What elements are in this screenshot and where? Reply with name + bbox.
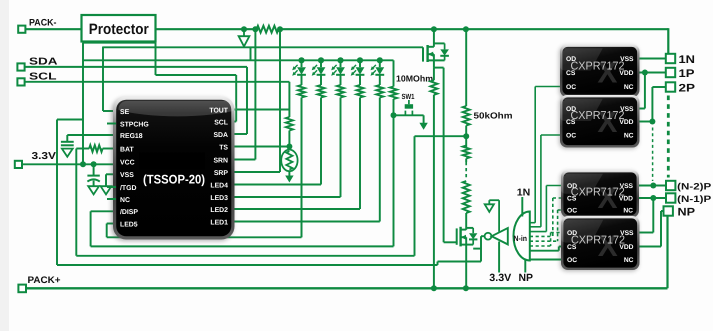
wire VSS2 riser (644, 73, 646, 109)
svg-text:3.3V: 3.3V (489, 272, 511, 284)
ground arrow C-REG18 (62, 149, 73, 157)
svg-text:TS: TS (219, 144, 228, 151)
wire left column x=83 (82, 43, 84, 165)
wire inverter output leg (481, 235, 485, 237)
svg-text:1P: 1P (679, 68, 695, 80)
wire gate input OC2 (530, 226, 541, 228)
wire BAT + resistor R-BAT (103, 148, 115, 150)
wire VSS (106, 173, 115, 175)
terminal PACK- (18, 26, 25, 33)
wire gate input CS4 (530, 250, 559, 252)
svg-text:CXPR7172: CXPR7172 (571, 187, 625, 199)
LED D1 (298, 57, 304, 63)
svg-text:NC: NC (624, 257, 634, 264)
wire SCL-pin link (y=75) (155, 43, 157, 75)
wire chain continuation (thin dashed) (652, 128, 654, 182)
wire VDD2 to 2P (638, 121, 652, 123)
terminal PACK+ (18, 285, 26, 293)
U1 redaction block (139, 153, 205, 170)
wire LED4 pin (320, 98, 322, 185)
wire REG18 (67, 134, 115, 136)
arrow SW to PACK+ (423, 115, 425, 123)
resistor R-TS (286, 117, 293, 131)
LED D5 (377, 57, 383, 63)
svg-text:(N-1)P: (N-1)P (677, 194, 711, 204)
svg-text:CXPR7172: CXPR7172 (571, 234, 625, 246)
resistor R-LED2 (320, 75, 322, 85)
wire rail 3.3V (y=262.5) (57, 264, 438, 266)
wire TOUT (233, 109, 290, 111)
svg-text:REG18: REG18 (120, 133, 143, 140)
svg-text:TOUT: TOUT (209, 107, 228, 114)
wire /DISP (91, 210, 115, 212)
wire SRN riser (254, 29, 256, 159)
LED D4 (357, 57, 363, 63)
svg-text:NP: NP (519, 272, 534, 284)
wire NP to PACK+ (666, 216, 668, 289)
wire SE pin riser (102, 47, 104, 112)
wire rail B gate line (y=47.3) (103, 46, 423, 48)
LED D3 (337, 57, 343, 63)
wire railB to LED rail connector (250, 47, 252, 60)
Protector box (82, 15, 156, 42)
resistor R-LED5 (379, 75, 381, 85)
terminal SDA (17, 63, 24, 70)
resistor R-LED4 (359, 75, 361, 85)
svg-text:CXPR7172: CXPR7172 (571, 110, 625, 122)
power arrow above inverter (485, 204, 494, 212)
svg-text:OC: OC (567, 208, 577, 215)
wire Q1-source to Q2-gate (443, 68, 445, 243)
U1 unconnected pin stubs (107, 123, 116, 125)
ground arrow VSS (101, 186, 112, 194)
svg-text:/TGD: /TGD (120, 185, 136, 192)
svg-text:LED5: LED5 (120, 221, 138, 228)
wire LED1 pin (379, 98, 381, 222)
terminal NP (664, 206, 673, 215)
wire Protector to sense resistor (156, 28, 257, 30)
svg-text:3.3V: 3.3V (32, 151, 57, 162)
inverter bubble U2 (485, 233, 492, 240)
resistor chain R2 (463, 146, 470, 159)
wire LED5 (107, 223, 115, 225)
wire 3.3V to VCC (22, 163, 115, 165)
svg-text:Protector: Protector (89, 21, 149, 38)
svg-text:LED4: LED4 (210, 182, 228, 189)
svg-text:NP: NP (678, 207, 696, 219)
wire gate input OD4 (dashed) (530, 245, 551, 247)
wire LED3 pin (340, 98, 342, 198)
svg-text:(TSSOP-20): (TSSOP-20) (143, 173, 205, 187)
wire SCL (24, 81, 289, 83)
IC CXPR7172 #1 (559, 46, 639, 99)
terminal 2P (666, 82, 675, 91)
svg-text:50kOhm: 50kOhm (474, 110, 513, 120)
svg-text:SDA: SDA (213, 132, 228, 139)
svg-text:OC: OC (567, 257, 577, 264)
wire VDD4 to NP (638, 246, 661, 248)
wire gate input OD3 (530, 231, 547, 233)
wire corner down to 1N (667, 28, 669, 54)
ground arrow under PACK- rail (243, 29, 245, 36)
svg-text:SRN: SRN (213, 157, 228, 164)
wire PACK- to Protector (25, 28, 81, 30)
wire VDD3 to (N-1)P (638, 197, 667, 199)
wire gate input OC4 (530, 259, 563, 261)
wire left column x=57 (56, 120, 58, 266)
svg-text:SE: SE (120, 109, 130, 116)
transistor Q1 (433, 29, 435, 47)
wire SDA (24, 66, 247, 68)
resistor R-LED3 (340, 75, 342, 85)
wire VDD1 to 1P (638, 72, 666, 74)
svg-text:(N-2)P: (N-2)P (677, 182, 711, 192)
wire rail BAT-50k (y=255.8) (76, 255, 414, 257)
gate U3 N-in body (514, 212, 530, 261)
svg-text:SW1: SW1 (402, 92, 415, 101)
svg-text:1N: 1N (517, 187, 531, 198)
inverter triangle (492, 228, 508, 244)
svg-text:SCL: SCL (214, 119, 228, 126)
svg-text:SRP: SRP (214, 170, 229, 177)
svg-text:NC: NC (623, 208, 633, 215)
body diode Q2 (472, 228, 474, 233)
wire jog at y=119.5 (57, 119, 83, 121)
svg-text:VSS: VSS (120, 172, 134, 179)
wire gate input CS3 (dashed) (530, 235, 553, 237)
wire PACK+ rail (26, 287, 668, 289)
resistor R-SW (393, 60, 395, 86)
svg-text:CXPR7172: CXPR7172 (571, 60, 625, 72)
svg-text:OC: OC (566, 133, 576, 140)
IC CXPR7172 #2 (559, 96, 639, 149)
wire SRP riser (279, 29, 281, 172)
wire VSS3 to (N-2)P (638, 185, 667, 187)
terminal 3.3V (15, 161, 22, 168)
body diode Q1 (444, 43, 446, 49)
resistor R-LED1 (301, 75, 303, 85)
wire Q1 source node (433, 60, 435, 67)
svg-text:NC: NC (624, 133, 634, 140)
wire rail /DISP-SW (y=246.4) (91, 245, 394, 247)
op-amp U1 main IC body (112, 98, 234, 241)
wire chain continuation (thick dashed) (667, 96, 670, 178)
capacitor C-REG18 (61, 141, 74, 143)
node TS (286, 144, 292, 150)
terminal (N-1)P (666, 193, 675, 202)
svg-text:BAT: BAT (120, 146, 134, 153)
terminal SCL (17, 78, 24, 85)
svg-text:VCC: VCC (120, 159, 135, 166)
ground arrow C-VCC (88, 186, 99, 194)
wire VSS4 riser (652, 198, 654, 233)
wire LED2 pin (359, 98, 361, 210)
wire rail A (y=42.6) (83, 42, 156, 44)
wire LED rail (y=60.3) (83, 59, 394, 61)
transistor Q2 (456, 228, 458, 244)
wire rail LED5 (y=237.3) (107, 236, 302, 238)
svg-text:10MOhm: 10MOhm (396, 73, 433, 83)
thermistor RT1 (281, 150, 297, 172)
terminal 1P (666, 68, 675, 77)
resistor chain R3 (463, 181, 470, 213)
terminal (N-2)P (666, 181, 675, 190)
LED D2 (318, 57, 324, 63)
svg-text:PACK-: PACK- (29, 17, 57, 28)
svg-text:2P: 2P (679, 82, 696, 94)
svg-text:NC: NC (624, 84, 634, 91)
node SW (391, 112, 397, 118)
wire VSS1 to 1N (638, 58, 666, 60)
wire gate input OC1 (530, 222, 535, 224)
svg-text:SDA: SDA (29, 57, 58, 68)
svg-text:OC: OC (566, 84, 576, 91)
svg-text:NC: NC (120, 197, 130, 204)
junction dots on PACK- rail (241, 26, 247, 32)
wire Q2 source to PACK+ (465, 245, 467, 289)
svg-text:PACK+: PACK+ (28, 275, 61, 286)
svg-text:LED3: LED3 (210, 195, 228, 202)
svg-text:STPCHG: STPCHG (120, 121, 149, 128)
IC CXPR7172 #3 (560, 171, 638, 219)
svg-text:N-in: N-in (514, 234, 528, 243)
capacitor C-VCC (93, 164, 95, 175)
wire gate input OC3 (dashed) (530, 240, 558, 242)
svg-text:LED2: LED2 (210, 207, 228, 214)
node divider (463, 133, 469, 139)
IC CXPR7172 #4 (560, 217, 639, 271)
wire dashed chain (465, 162, 467, 180)
svg-text:/DISP: /DISP (120, 209, 138, 216)
svg-text:1N: 1N (679, 54, 696, 66)
wire rail to corner (279, 28, 669, 30)
resistor R-sense (257, 26, 279, 33)
terminal 1N (666, 54, 675, 63)
svg-text:LED1: LED1 (210, 219, 228, 226)
